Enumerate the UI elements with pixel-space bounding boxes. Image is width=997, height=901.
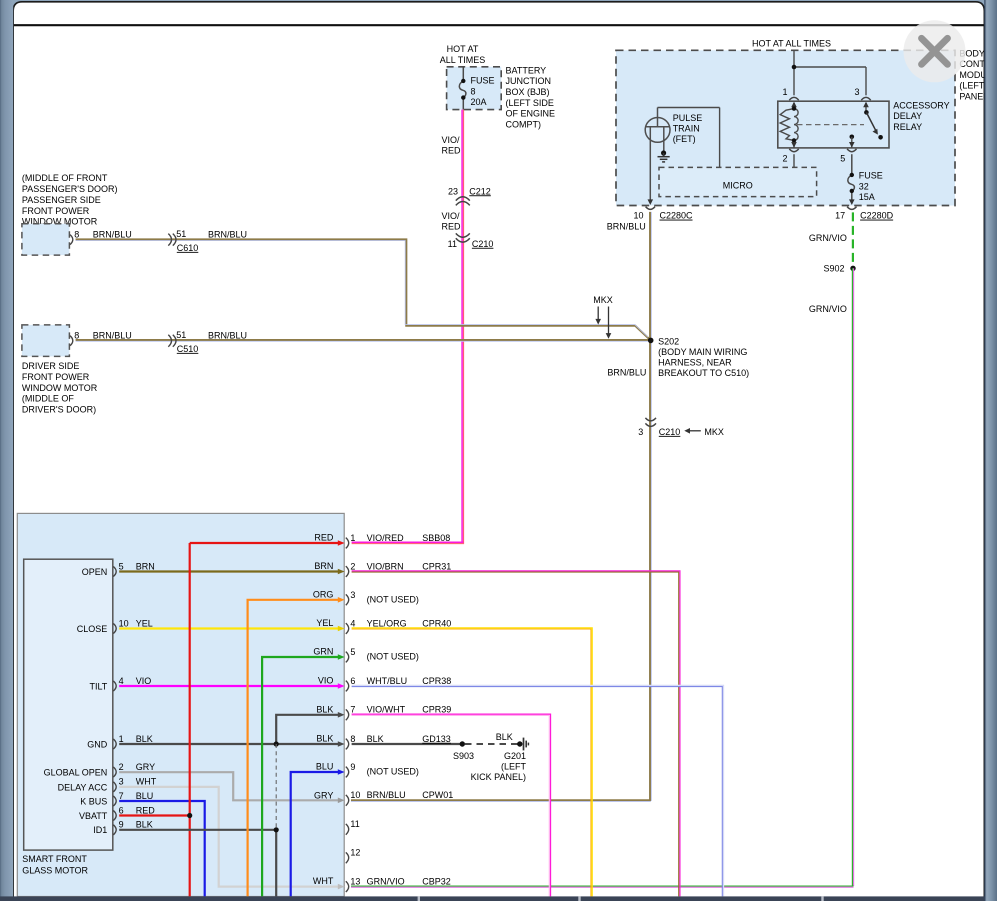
svg-text:S202: S202 xyxy=(658,336,679,346)
svg-text:5: 5 xyxy=(119,561,124,571)
wire GRN to pin5 and down xyxy=(262,657,338,896)
wire FET gate to micro xyxy=(658,108,720,168)
wire ORG to pin3 and down xyxy=(248,600,339,897)
svg-text:BLK: BLK xyxy=(316,734,333,744)
wire VIO tilt to pin6 xyxy=(119,685,338,687)
node B+ label HOT AT ALL TIMES (left) xyxy=(440,44,486,65)
svg-text:1: 1 xyxy=(350,533,355,543)
connector C210 pin 3 with MKX arrow xyxy=(638,418,724,437)
svg-text:C210: C210 xyxy=(659,427,681,437)
svg-text:BLU: BLU xyxy=(316,762,334,772)
svg-text:8: 8 xyxy=(74,331,79,341)
svg-text:(MIDDLE OF FRONT: (MIDDLE OF FRONT xyxy=(22,173,108,183)
svg-text:GD133: GD133 xyxy=(422,734,451,744)
wire VIO/BRN pin2 xyxy=(352,571,680,897)
svg-text:ACCESSORY: ACCESSORY xyxy=(893,100,949,110)
svg-text:5: 5 xyxy=(350,647,355,657)
svg-text:VIO/BRN: VIO/BRN xyxy=(367,561,404,571)
relay actuation dashed link xyxy=(797,124,864,126)
relay name label xyxy=(893,100,949,131)
svg-text:DELAY: DELAY xyxy=(893,111,922,121)
svg-text:HOT AT: HOT AT xyxy=(447,44,479,54)
wire VIO/RED label lower xyxy=(442,211,462,232)
wire GRY global open to pin10 xyxy=(119,772,338,800)
svg-text:WINDOW MOTOR: WINDOW MOTOR xyxy=(22,383,98,393)
svg-text:2: 2 xyxy=(119,762,124,772)
wire BLU to pin9 and down xyxy=(291,772,339,896)
wire YEL/ORG pin4 xyxy=(352,628,592,897)
svg-text:KICK PANEL): KICK PANEL) xyxy=(471,772,526,782)
pin7 labels xyxy=(367,705,452,715)
svg-text:OPEN: OPEN xyxy=(82,567,108,577)
splice dot gnd xyxy=(274,741,279,746)
svg-text:CPR39: CPR39 xyxy=(422,705,451,715)
svg-text:9: 9 xyxy=(350,762,355,772)
svg-text:GRN/VIO: GRN/VIO xyxy=(809,233,847,243)
wire RED vbatt to pin1 and down xyxy=(119,543,338,896)
FET name label xyxy=(673,113,703,144)
13-pin connector arcs xyxy=(346,538,349,892)
svg-text:9: 9 xyxy=(119,820,124,830)
svg-text:DRIVER'S DOOR): DRIVER'S DOOR) xyxy=(22,404,96,414)
BCM name label xyxy=(959,49,997,102)
svg-text:15A: 15A xyxy=(859,192,875,202)
svg-text:3: 3 xyxy=(350,590,355,600)
wire BLK pin8 to S903 xyxy=(352,743,463,745)
svg-text:GRY: GRY xyxy=(314,790,333,800)
svg-text:BRN/BLU: BRN/BLU xyxy=(93,229,132,239)
svg-text:(BODY MAIN WIRING: (BODY MAIN WIRING xyxy=(658,347,747,357)
svg-text:8: 8 xyxy=(350,734,355,744)
micro (dashed box) xyxy=(659,167,817,196)
svg-text:BRN/BLU: BRN/BLU xyxy=(208,331,247,341)
svg-text:S903: S903 xyxy=(453,751,474,761)
connector C510 pin 51 xyxy=(168,330,198,354)
svg-text:BRN/BLU: BRN/BLU xyxy=(93,331,132,341)
smart front glass motor outer box xyxy=(17,513,344,896)
motor pin numbers xyxy=(119,561,129,829)
wire BLK id1 xyxy=(119,830,276,897)
transistor Q1 pulse train FET xyxy=(645,108,670,204)
svg-text:MICRO: MICRO xyxy=(723,180,753,190)
wire YEL close to pin4 xyxy=(119,627,338,629)
driver motor label xyxy=(22,361,98,414)
svg-text:6: 6 xyxy=(350,676,355,686)
close button xyxy=(904,20,966,82)
splice S902 xyxy=(823,264,855,274)
svg-text:BRN: BRN xyxy=(136,561,155,571)
svg-text:WHT: WHT xyxy=(313,876,334,886)
svg-text:C2280C: C2280C xyxy=(660,211,694,221)
wire GRN/VIO from S902 down to pin 13 xyxy=(351,268,854,887)
svg-text:YEL: YEL xyxy=(316,618,333,628)
svg-text:VIO/: VIO/ xyxy=(442,135,461,145)
pin10 labels xyxy=(367,790,454,800)
svg-text:1: 1 xyxy=(782,87,787,97)
svg-text:13: 13 xyxy=(350,876,360,886)
svg-text:HARNESS, NEAR: HARNESS, NEAR xyxy=(658,358,732,368)
svg-text:GRN/VIO: GRN/VIO xyxy=(367,876,405,886)
svg-text:11: 11 xyxy=(350,819,359,829)
ground (FET source) xyxy=(658,150,670,162)
smart front glass motor name xyxy=(22,854,88,876)
pin4 labels xyxy=(367,618,452,628)
passenger window motor box (dashed) xyxy=(22,224,70,255)
svg-text:PANEL: PANEL xyxy=(959,91,988,101)
svg-text:VIO/WHT: VIO/WHT xyxy=(367,705,406,715)
pin2 labels xyxy=(367,561,452,571)
svg-text:GLASS MOTOR: GLASS MOTOR xyxy=(22,865,88,875)
wire BLU k bus down xyxy=(119,801,205,896)
motor pin 8 connector arc xyxy=(70,229,79,244)
wire WHT delay acc to pin13 xyxy=(119,787,338,887)
svg-text:CPR40: CPR40 xyxy=(422,618,451,628)
svg-text:GRN: GRN xyxy=(313,647,333,657)
wire feed from hot at all times xyxy=(794,50,866,95)
motor pin wire color labels xyxy=(136,561,157,829)
dashed shield link gnd to id1 xyxy=(275,744,277,830)
svg-text:(NOT USED): (NOT USED) xyxy=(367,594,419,604)
svg-text:(LEFT: (LEFT xyxy=(959,81,985,91)
svg-text:CLOSE: CLOSE xyxy=(77,624,108,634)
svg-text:10: 10 xyxy=(119,618,129,628)
wire BRN/BLU from C2280C through S202 to pin 10 xyxy=(351,212,651,802)
svg-text:(LEFT SIDE: (LEFT SIDE xyxy=(506,98,554,108)
svg-text:17: 17 xyxy=(835,211,845,221)
connector C212 pin 23 xyxy=(448,186,491,205)
svg-text:G201: G201 xyxy=(504,751,526,761)
svg-text:C212: C212 xyxy=(469,186,491,196)
svg-text:VBATT: VBATT xyxy=(79,811,108,821)
splice dot id1 xyxy=(274,827,279,832)
svg-text:10: 10 xyxy=(350,790,360,800)
wire BRN open to pin2 xyxy=(119,570,338,572)
svg-text:MKX: MKX xyxy=(704,427,724,437)
svg-text:ALL TIMES: ALL TIMES xyxy=(440,55,486,65)
svg-text:MKX: MKX xyxy=(593,295,613,305)
fuse F8 value labels xyxy=(471,76,495,108)
pin13 labels xyxy=(367,876,451,886)
svg-text:FUSE: FUSE xyxy=(859,171,883,181)
wire VIO/RED vertical from fuse 8 to pin 1 row xyxy=(462,110,464,543)
svg-text:(FET): (FET) xyxy=(673,134,696,144)
wire terminal arrows at connector edge xyxy=(338,540,345,889)
svg-text:BLK: BLK xyxy=(136,820,153,830)
passenger window motor label xyxy=(22,173,118,226)
svg-text:C210: C210 xyxy=(472,239,494,249)
svg-text:3: 3 xyxy=(638,427,643,437)
right window strip xyxy=(984,0,997,901)
splice S903 xyxy=(453,741,474,761)
wire VIO/RED label upper xyxy=(442,135,462,156)
svg-text:(MIDDLE OF: (MIDDLE OF xyxy=(22,394,75,404)
relay pin 5 contact xyxy=(849,135,855,148)
svg-text:S902: S902 xyxy=(823,264,844,274)
driver motor pin 8 connector arc xyxy=(70,331,79,346)
svg-text:32: 32 xyxy=(859,181,869,191)
svg-text:COMPT): COMPT) xyxy=(506,119,542,129)
connector C610 pin 51 xyxy=(168,229,198,253)
svg-text:BATTERY: BATTERY xyxy=(506,65,547,75)
svg-text:CPW01: CPW01 xyxy=(422,790,453,800)
body control module BCM (dashed box) xyxy=(616,50,955,205)
svg-text:GLOBAL OPEN: GLOBAL OPEN xyxy=(44,767,108,777)
svg-text:BLK: BLK xyxy=(316,704,333,714)
svg-text:GRY: GRY xyxy=(136,762,155,772)
wire BLK pin7 jumper to gnd xyxy=(276,715,338,744)
svg-text:BLK: BLK xyxy=(496,732,513,742)
svg-text:(NOT USED): (NOT USED) xyxy=(367,652,419,662)
battery junction box BJB (dashed box) xyxy=(447,67,502,110)
top band behind card corners xyxy=(0,0,997,12)
svg-text:PULSE: PULSE xyxy=(673,113,703,123)
svg-text:C2280D: C2280D xyxy=(860,211,894,221)
wire VIO/WHT pin7 xyxy=(352,714,551,896)
svg-text:CPR38: CPR38 xyxy=(422,676,451,686)
svg-text:3: 3 xyxy=(854,87,859,97)
relay switch pin3-pin5 xyxy=(863,102,883,140)
svg-text:YEL/ORG: YEL/ORG xyxy=(367,618,407,628)
fuse F8 20A xyxy=(459,67,466,110)
svg-text:RED: RED xyxy=(314,533,334,543)
svg-text:C610: C610 xyxy=(177,243,199,253)
svg-text:8: 8 xyxy=(471,86,476,96)
toolbar divider line xyxy=(14,24,985,26)
svg-text:2: 2 xyxy=(350,561,355,571)
svg-text:VIO: VIO xyxy=(136,676,152,686)
fuse F32 15A xyxy=(848,154,855,203)
svg-text:JUNCTION: JUNCTION xyxy=(506,76,552,86)
svg-text:HOT AT ALL TIMES: HOT AT ALL TIMES xyxy=(752,39,831,49)
svg-text:PASSENGER SIDE: PASSENGER SIDE xyxy=(22,195,101,205)
BJB name label xyxy=(506,65,556,129)
svg-text:WHT/BLU: WHT/BLU xyxy=(367,676,408,686)
svg-text:YEL: YEL xyxy=(136,618,153,628)
splice dot vbatt xyxy=(187,813,192,818)
connector C2280C pin 10 xyxy=(633,207,693,221)
wire BRN/BLU from C610 to splice S202 xyxy=(76,239,650,339)
motor pin labels (left) xyxy=(44,567,108,835)
svg-text:BRN/BLU: BRN/BLU xyxy=(367,790,406,800)
wire BLK dashed to ground xyxy=(465,743,518,745)
relay pin 5 connector arc xyxy=(840,149,856,164)
connector C2280D pin 17 xyxy=(835,207,893,221)
svg-text:7: 7 xyxy=(350,705,355,715)
svg-text:51: 51 xyxy=(176,229,186,239)
svg-text:TRAIN: TRAIN xyxy=(673,124,700,134)
svg-text:CBP32: CBP32 xyxy=(422,876,451,886)
splice S202 xyxy=(648,336,749,378)
svg-text:DELAY ACC: DELAY ACC xyxy=(58,782,108,792)
svg-text:7: 7 xyxy=(119,791,124,801)
svg-text:BLU: BLU xyxy=(136,791,154,801)
svg-text:5: 5 xyxy=(840,154,845,164)
svg-text:PASSENGER'S DOOR): PASSENGER'S DOOR) xyxy=(22,184,118,194)
svg-text:1: 1 xyxy=(119,734,124,744)
close button X icon xyxy=(922,38,948,64)
svg-text:(NOT USED): (NOT USED) xyxy=(367,767,419,777)
svg-text:12: 12 xyxy=(350,848,360,858)
relay pin 2 connector arc xyxy=(782,149,798,164)
svg-text:4: 4 xyxy=(119,676,124,686)
pin6 labels xyxy=(367,676,452,686)
pin1 labels xyxy=(367,533,451,543)
left window strip xyxy=(0,0,13,901)
svg-text:8: 8 xyxy=(74,229,79,239)
bottom bar xyxy=(0,896,997,901)
svg-text:10: 10 xyxy=(633,211,643,221)
svg-text:BRN/BLU: BRN/BLU xyxy=(607,367,646,377)
fuse F32 labels xyxy=(859,171,883,203)
svg-text:ID1: ID1 xyxy=(93,825,107,835)
svg-text:SMART FRONT: SMART FRONT xyxy=(22,854,87,864)
pin8 labels xyxy=(367,734,451,744)
svg-text:2: 2 xyxy=(782,154,787,164)
wire GRN dashed from C2280D to splice S902 xyxy=(852,212,854,266)
svg-text:VIO/RED: VIO/RED xyxy=(367,533,405,543)
ground G201 xyxy=(471,738,529,783)
svg-text:GRN/VIO: GRN/VIO xyxy=(809,304,847,314)
svg-text:BLK: BLK xyxy=(367,734,384,744)
svg-text:VIO/: VIO/ xyxy=(442,211,461,221)
svg-text:BREAKOUT TO C510): BREAKOUT TO C510) xyxy=(658,368,749,378)
svg-text:OF ENGINE: OF ENGINE xyxy=(506,109,556,119)
13-pin connector pin numbers xyxy=(350,533,360,887)
motor pin connector arcs xyxy=(113,567,116,835)
relay U1 accessory delay relay box xyxy=(778,101,889,148)
svg-text:WHT: WHT xyxy=(136,777,157,787)
svg-text:ORG: ORG xyxy=(313,590,334,600)
svg-text:C510: C510 xyxy=(177,344,199,354)
svg-text:51: 51 xyxy=(176,330,186,340)
relay pin 1 connector arc xyxy=(782,87,798,100)
svg-text:BRN: BRN xyxy=(314,561,333,571)
svg-text:3: 3 xyxy=(119,777,124,787)
svg-text:CPR31: CPR31 xyxy=(422,561,451,571)
svg-text:K BUS: K BUS xyxy=(80,796,107,806)
relay pin 3 connector arc xyxy=(854,87,870,100)
svg-text:(LEFT: (LEFT xyxy=(501,762,527,772)
label MKX with arrows onto wires xyxy=(593,295,613,339)
svg-text:RED: RED xyxy=(442,145,462,155)
svg-text:VIO: VIO xyxy=(318,676,334,686)
svg-text:11: 11 xyxy=(448,239,457,249)
svg-text:FRONT POWER: FRONT POWER xyxy=(22,372,90,382)
wire relay pin2 to micro xyxy=(793,154,795,167)
wire BRN/BLU from C510 to splice S202 xyxy=(76,340,651,341)
svg-text:RED: RED xyxy=(442,221,462,231)
svg-text:20A: 20A xyxy=(471,97,487,107)
svg-text:DRIVER SIDE: DRIVER SIDE xyxy=(22,361,80,371)
relay coil pin1-pin2 with terminal arrows xyxy=(780,103,798,148)
svg-text:SBB08: SBB08 xyxy=(422,533,450,543)
svg-text:BRN/BLU: BRN/BLU xyxy=(208,229,247,239)
svg-text:BRN/BLU: BRN/BLU xyxy=(607,221,646,231)
svg-text:6: 6 xyxy=(119,805,124,815)
svg-text:4: 4 xyxy=(350,618,355,628)
wire color labels at connector edge xyxy=(313,533,334,887)
svg-text:FRONT POWER: FRONT POWER xyxy=(22,206,90,216)
smart front glass motor inner box xyxy=(24,559,113,850)
svg-text:RELAY: RELAY xyxy=(893,122,922,132)
wire WHT/BLU pin6 xyxy=(352,685,724,896)
wire VIO/RED pin1 horizontal xyxy=(352,542,465,543)
svg-text:RED: RED xyxy=(136,805,156,815)
connector C210 pin 11 xyxy=(448,233,494,248)
svg-text:BLK: BLK xyxy=(136,734,153,744)
driver window motor box (dashed) xyxy=(22,325,70,357)
wire BLK gnd to pin8 xyxy=(119,743,338,745)
svg-text:23: 23 xyxy=(448,186,458,196)
svg-text:TILT: TILT xyxy=(89,681,107,691)
svg-text:FUSE: FUSE xyxy=(471,76,495,86)
svg-text:BOX (BJB): BOX (BJB) xyxy=(506,87,550,97)
svg-text:GND: GND xyxy=(87,739,108,749)
junction node dot xyxy=(792,65,797,70)
